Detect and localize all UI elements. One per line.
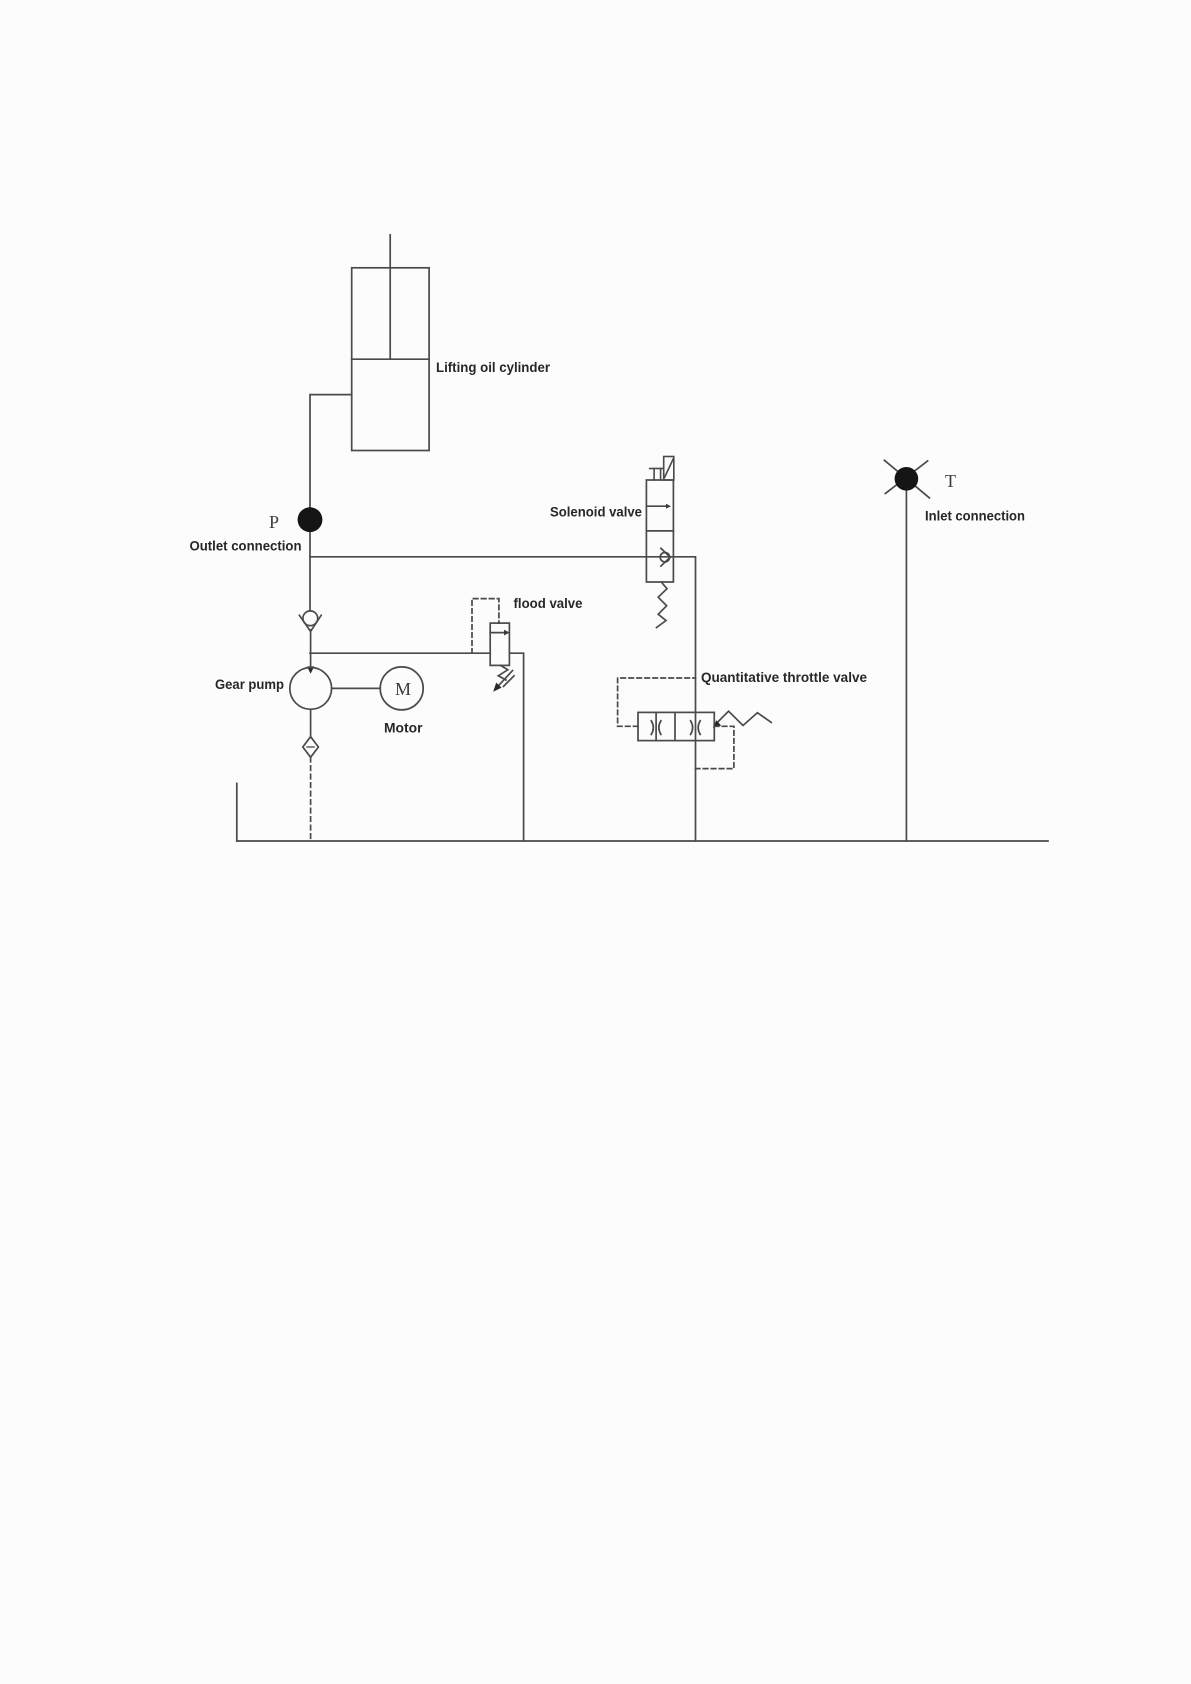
- check valve in solenoid: [646, 556, 673, 558]
- orifice 2: [691, 721, 693, 735]
- throttle cell divider: [674, 712, 676, 740]
- svg-text:Outlet connection: Outlet connection: [190, 538, 302, 554]
- wire junction to flood valve: [310, 652, 490, 654]
- wire check valve to pump: [310, 630, 312, 667]
- suction filter: [303, 737, 319, 758]
- solenoid return spring: [657, 582, 668, 628]
- svg-text:Motor: Motor: [384, 720, 423, 736]
- T cross: [884, 460, 929, 498]
- cylinder port wire: [310, 395, 352, 508]
- piston line: [352, 358, 429, 360]
- svg-text:T: T: [945, 471, 956, 491]
- wire T to tank: [905, 479, 907, 841]
- orifice 1: [651, 721, 653, 735]
- throttle pilot line left (dashed): [618, 678, 696, 726]
- throttle spring: [714, 711, 771, 725]
- node T (inlet connection): [895, 467, 919, 491]
- lifting oil cylinder body: [352, 268, 429, 451]
- tank left wall: [236, 783, 238, 841]
- solenoid valve body: [646, 480, 673, 582]
- motor M: [380, 667, 423, 710]
- suction wire (dashed): [310, 757, 312, 841]
- solenoid valve divider 2: [646, 530, 673, 532]
- pump-motor shaft wire: [332, 687, 381, 689]
- svg-text:flood valve: flood valve: [514, 595, 583, 611]
- wire pump to filter: [310, 709, 312, 736]
- solenoid terminal comb: [650, 468, 664, 470]
- piston rod: [389, 235, 391, 359]
- throttle cell 1 flow line: [655, 712, 657, 740]
- svg-text:Quantitative throttle valve: Quantitative throttle valve: [701, 669, 867, 685]
- quantitative throttle valve body: [638, 712, 714, 740]
- flood valve internal arrow: [490, 632, 505, 634]
- check valve CV1: [303, 611, 318, 626]
- throttle feedback pilot (dashed): [695, 726, 734, 768]
- svg-text:Gear pump: Gear pump: [215, 676, 284, 692]
- flood valve pilot line (dashed): [472, 599, 499, 654]
- node P (outlet connection): [298, 507, 323, 532]
- solenoid valve divider with arrow: [646, 505, 667, 507]
- solenoid coil box: [664, 457, 674, 481]
- svg-text:P: P: [269, 512, 279, 532]
- flood valve body: [490, 623, 509, 665]
- tank line: [237, 840, 1048, 842]
- wire solenoid valve to throttle line: [673, 557, 695, 841]
- wire flood valve to right corner: [509, 653, 523, 841]
- pump inlet arrowhead: [307, 666, 314, 673]
- svg-text:M: M: [395, 679, 411, 699]
- flood valve adjust arrow (lightning): [498, 665, 508, 680]
- svg-text:Solenoid valve: Solenoid valve: [550, 504, 642, 520]
- wire P down to check valve: [309, 508, 311, 611]
- svg-text:Inlet connection: Inlet connection: [925, 508, 1025, 524]
- gear pump: [290, 668, 332, 710]
- main pressure wire P to solenoid valve: [310, 556, 646, 558]
- svg-text:Lifting oil cylinder: Lifting oil cylinder: [436, 359, 551, 375]
